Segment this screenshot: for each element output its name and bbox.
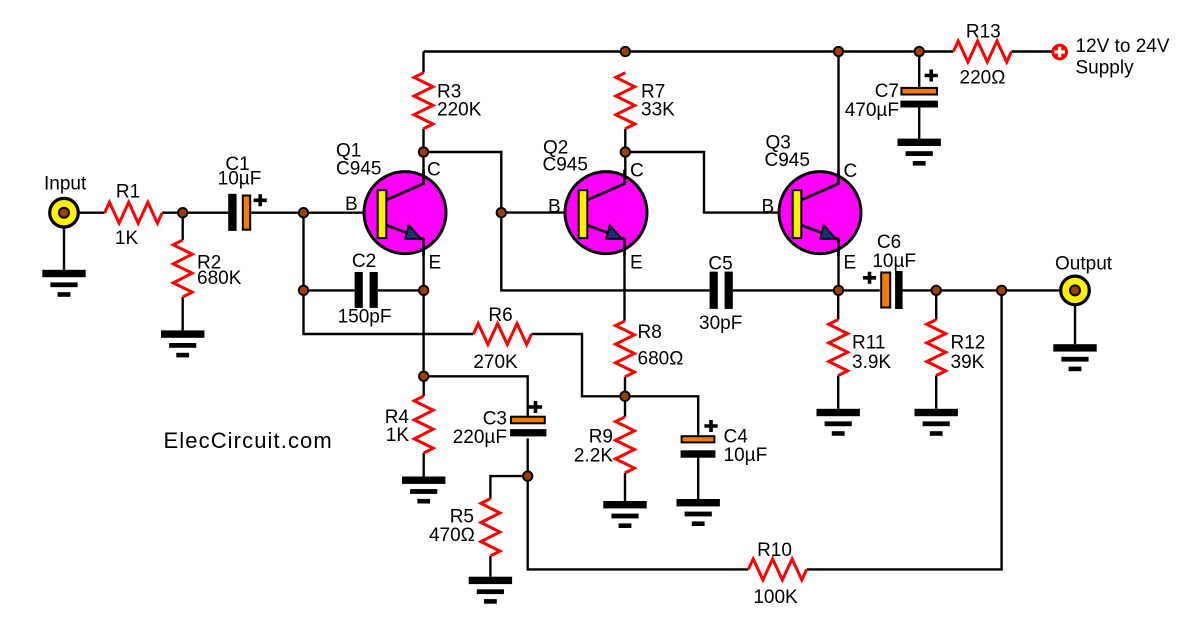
ground C4 (677, 499, 720, 526)
ground R12 (915, 409, 958, 436)
node rail / Q3 collector junction (834, 47, 843, 56)
wire C7 top lead (918, 52, 920, 87)
ground R5 (469, 577, 512, 604)
transistor Q1 (364, 170, 446, 256)
svg-text:470Ω: 470Ω (429, 525, 475, 546)
svg-text:C945: C945 (765, 150, 810, 171)
wire rail after R13 to supply (1012, 50, 1053, 52)
resistor R4 (414, 396, 433, 453)
wire C3 branch (424, 376, 528, 415)
wire Q3 emitter drop (837, 240, 839, 291)
wire R4 top lead (423, 376, 425, 396)
ground input jack (42, 270, 85, 297)
wire R11 bottom lead (837, 376, 839, 409)
wire Q1 emitter drop (422, 240, 424, 377)
svg-text:10µF: 10µF (872, 251, 916, 272)
ground R4 (402, 477, 445, 504)
svg-text:B: B (548, 197, 561, 218)
resistor R12 (927, 320, 946, 376)
resistor R2 (173, 240, 192, 297)
wire Q1 collector riser (422, 152, 424, 184)
svg-text:1K: 1K (386, 425, 410, 446)
resistor R10 (748, 559, 806, 580)
wire node A down to C2 level (302, 213, 304, 291)
svg-text:Input: Input (44, 174, 87, 195)
resistor R13 (953, 41, 1011, 62)
wire Q3 collector riser (837, 52, 839, 185)
svg-text:E: E (844, 253, 857, 274)
svg-text:Output: Output (1055, 254, 1113, 275)
svg-text:12V to 24V: 12V to 24V (1076, 36, 1170, 57)
wire C7 bottom lead (918, 108, 920, 139)
node C3/R5/R10 junction (523, 471, 532, 480)
wire R2 bottom lead (181, 297, 183, 330)
ground C7 (898, 139, 941, 166)
node R1/R2/C1 junction (178, 208, 187, 217)
supply positive terminal (1051, 44, 1068, 61)
svg-text:3.9K: 3.9K (852, 352, 891, 373)
svg-text:30pF: 30pF (699, 313, 742, 334)
svg-text:150pF: 150pF (338, 307, 392, 328)
resistor R8 (616, 321, 635, 377)
wire R9 top lead (624, 396, 626, 417)
svg-text:R12: R12 (951, 333, 986, 354)
node C2 left junction (299, 286, 308, 295)
wire R2 top lead (181, 213, 183, 240)
node rail / R7 junction (621, 47, 630, 56)
resistor R6 (473, 324, 531, 345)
svg-text:C: C (844, 161, 858, 182)
svg-text:C945: C945 (336, 159, 381, 180)
wire Q2 collector riser (624, 152, 626, 184)
wire R5 branch (490, 476, 527, 499)
wire R9 bottom lead (624, 473, 626, 501)
resistor R9 (616, 417, 635, 473)
resistor R5 (481, 499, 500, 556)
wire Q2 base stub (501, 211, 578, 213)
node C1/Q1-base junction (299, 208, 308, 217)
wire output jack ground lead (1074, 305, 1076, 345)
svg-text:R10: R10 (757, 540, 792, 561)
svg-text:R13: R13 (966, 22, 1001, 43)
ground output jack (1053, 344, 1096, 371)
svg-text:270K: 270K (473, 352, 518, 373)
capacitor C4 (681, 420, 718, 458)
wire C2 left lead (304, 289, 355, 291)
svg-text:2.2K: 2.2K (574, 446, 613, 467)
svg-text:10µF: 10µF (724, 445, 768, 466)
svg-text:1K: 1K (115, 228, 139, 249)
svg-text:R6: R6 (488, 305, 512, 326)
wire node to R10 (528, 476, 749, 569)
capacitor C5 (710, 272, 733, 309)
svg-text:39K: 39K (951, 352, 985, 373)
transistor Q3 (779, 170, 861, 256)
svg-text:C2: C2 (352, 251, 376, 272)
svg-text:100K: 100K (753, 587, 798, 608)
wire C2 right lead (378, 289, 424, 291)
svg-text:E: E (429, 253, 442, 274)
svg-text:B: B (345, 194, 358, 215)
node R8/R9/C4 junction (620, 392, 629, 401)
svg-text:C7: C7 (875, 81, 899, 102)
wire input jack ground lead (63, 227, 65, 270)
wire R6 left branch (304, 290, 474, 334)
resistor R3 (414, 73, 433, 129)
svg-text:C945: C945 (543, 155, 588, 176)
wire Q2 emitter drop (623, 240, 625, 321)
wire Q1 collector to Q2 base (424, 152, 710, 290)
capacitor C7 (900, 70, 938, 108)
resistor R7 (616, 73, 635, 129)
svg-text:220Ω: 220Ω (960, 68, 1006, 89)
node Q1 emitter / R4 junction (419, 372, 428, 381)
wire R3 bottom lead (422, 129, 424, 152)
wire R10 to output node (807, 290, 1002, 569)
wire input jack to R1 (78, 211, 105, 213)
svg-text:R8: R8 (638, 322, 662, 343)
capacitor C3 (510, 401, 546, 436)
node Q2 base node (497, 208, 506, 217)
node C2 right / Q1 emitter junction (419, 286, 428, 295)
ground R9 (603, 501, 646, 528)
svg-text:R11: R11 (852, 333, 885, 354)
svg-text:680Ω: 680Ω (638, 349, 684, 370)
svg-text:C5: C5 (708, 254, 732, 275)
svg-text:ElecCircuit.com: ElecCircuit.com (164, 428, 333, 453)
wire C4 bottom lead (697, 458, 699, 499)
wire R1 to C1 (162, 211, 228, 213)
wire R5 bottom lead (489, 556, 491, 577)
svg-text:220µF: 220µF (453, 427, 507, 448)
transistor Q2 (565, 170, 647, 256)
wire C4 branch (625, 396, 698, 435)
svg-text:680K: 680K (197, 268, 242, 289)
svg-text:10µF: 10µF (218, 169, 262, 190)
wire C3 to node (527, 438, 529, 476)
output jack (1061, 276, 1090, 305)
resistor R1 (105, 202, 163, 223)
node Q1 collector node (419, 147, 428, 156)
svg-text:220K: 220K (437, 100, 482, 121)
ground R2 (161, 330, 204, 357)
wire top rail left (422, 52, 424, 73)
svg-text:33K: 33K (641, 100, 675, 121)
svg-text:C: C (427, 160, 441, 181)
wire R8 bottom lead (624, 377, 626, 397)
node Q2 collector node (621, 147, 630, 156)
wire R12 bottom lead (935, 376, 937, 409)
svg-text:E: E (630, 253, 643, 274)
wire R4 bottom lead (423, 453, 425, 477)
wire R12 top lead (935, 290, 937, 319)
wire Q2 collector to Q3 base (625, 152, 792, 213)
capacitor C2 (355, 272, 378, 308)
svg-text:C: C (630, 161, 644, 182)
node Q3 emitter / C5 / R11 junction (834, 286, 843, 295)
wire C6 right lead (903, 289, 1061, 291)
capacitor C1 (228, 194, 267, 231)
svg-text:R1: R1 (116, 182, 140, 203)
ground R11 (817, 409, 860, 436)
input jack (50, 198, 79, 227)
svg-text:Supply: Supply (1076, 58, 1135, 79)
svg-text:B: B (762, 197, 775, 218)
svg-text:C6: C6 (877, 232, 901, 253)
node output node junction (997, 286, 1006, 295)
svg-text:470µF: 470µF (845, 100, 899, 121)
wire C1 to Q1 base (251, 211, 378, 213)
capacitor C6 (863, 271, 903, 309)
svg-text:R9: R9 (589, 427, 613, 448)
wire R7 bottom lead (624, 129, 626, 152)
resistor R11 (829, 320, 848, 376)
wire C5 right lead (733, 289, 880, 291)
node rail / C7 junction (915, 47, 924, 56)
node C6 / R12 junction (932, 286, 941, 295)
wire top rail (424, 50, 954, 52)
wire R6 right branch (532, 334, 626, 396)
wire R11 top lead (837, 290, 839, 319)
